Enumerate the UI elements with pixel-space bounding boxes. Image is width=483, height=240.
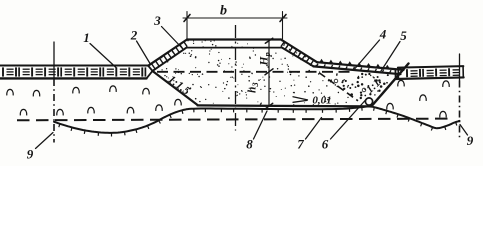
slope direction symbol <box>293 97 308 100</box>
svg-text:b: b <box>220 4 227 19</box>
svg-text:3: 3 <box>153 13 161 28</box>
svg-text:0,01: 0,01 <box>312 95 331 107</box>
svg-text:9: 9 <box>27 147 34 162</box>
depression curve (groundwater drawdown) <box>54 107 460 133</box>
dashed buried slope boundary of prism <box>319 73 358 101</box>
crest pavement band bottom line <box>187 47 283 49</box>
excavation bottom line (label 8) <box>198 105 372 106</box>
left roadway strip bottom edge <box>0 77 147 79</box>
dashed original ground line <box>157 71 351 73</box>
right roadway strip <box>395 66 464 79</box>
left roadway strip (label 1) top edge <box>0 65 148 67</box>
svg-text:4: 4 <box>379 27 387 42</box>
drainage trench right wall 1:1 <box>372 64 409 107</box>
embankment centerline axis <box>235 25 237 131</box>
vertical dimension line Hp-h3 <box>268 40 270 106</box>
drain pipe circle (label 6) <box>365 98 372 105</box>
extension line right of b <box>282 12 284 40</box>
right borehole line <box>459 54 461 81</box>
tick at bottom end of h3 <box>265 103 272 109</box>
lower left slope line 1:1.5 <box>153 71 198 105</box>
tick at crest end of Hp <box>265 38 272 43</box>
svg-text:h3: h3 <box>247 82 261 93</box>
gravel dots of drainage prism <box>330 73 388 102</box>
lower dashed groundwater line (label 7) <box>17 119 452 121</box>
left borehole line <box>53 42 55 79</box>
svg-text:7: 7 <box>297 137 304 152</box>
swamp/peat arc symbols <box>7 80 450 117</box>
tick at ground crossing <box>265 69 273 75</box>
right slope protection band top line <box>281 40 317 63</box>
svg-text:5: 5 <box>400 28 407 43</box>
dimension line b <box>183 17 287 19</box>
sand fill dots of embankment body <box>161 40 353 105</box>
berm band top line <box>317 62 404 70</box>
berm band bottom line <box>314 66 401 74</box>
left strip end taper to toe point <box>148 66 153 71</box>
svg-text:1: 1 <box>83 30 90 45</box>
hatch ticks of left slope band <box>151 42 187 69</box>
left slope protection band bottom line <box>153 48 187 71</box>
svg-text:6: 6 <box>322 137 329 152</box>
extension line left of b <box>186 12 188 40</box>
left roadway strip hatch pattern <box>3 67 145 76</box>
embankment crest top line <box>187 38 281 40</box>
triangle marks on berm band <box>319 59 390 69</box>
svg-text:2: 2 <box>130 28 138 43</box>
left slope protection band top line <box>148 40 187 66</box>
svg-text:1:1,5: 1:1,5 <box>166 74 193 98</box>
dimension tick left <box>184 15 190 22</box>
hatch ticks below depression curve <box>59 107 457 136</box>
dark hatch inside berm band <box>317 64 391 73</box>
svg-text:Hp: Hp <box>259 52 273 66</box>
hatch ticks of right slope band <box>281 42 314 66</box>
svg-text:8: 8 <box>246 137 253 152</box>
right slope protection band bottom line <box>282 48 314 67</box>
dimension tick right <box>280 15 286 22</box>
